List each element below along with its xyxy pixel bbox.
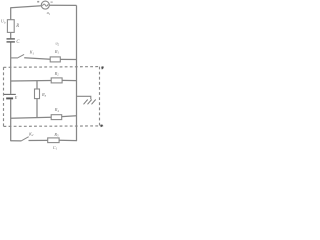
svg-text:R3: R3 bbox=[41, 92, 47, 98]
svg-text:R2: R2 bbox=[54, 71, 60, 77]
battery E bbox=[4, 94, 16, 98]
wire top-left horizontal bbox=[11, 6, 42, 8]
svg-text:u2: u2 bbox=[56, 41, 60, 47]
svg-text:K2: K2 bbox=[28, 131, 34, 137]
svg-text:C: C bbox=[16, 40, 20, 45]
resistor R4 bbox=[51, 115, 62, 120]
wire R3 down bbox=[36, 99, 38, 118]
wire R5 to right bbox=[59, 139, 77, 141]
wire bbox=[10, 32, 12, 38]
wire3 right bbox=[62, 115, 77, 118]
svg-text:R: R bbox=[15, 24, 19, 29]
capacitor C bbox=[7, 39, 15, 42]
wire top-right horizontal bbox=[49, 4, 76, 6]
wire2 right bbox=[62, 79, 76, 81]
shield box dashed right bbox=[99, 67, 101, 126]
resistor R5 bbox=[48, 138, 59, 143]
wire stub to chassis ground bbox=[77, 96, 91, 99]
shield box dashed top bbox=[4, 66, 100, 69]
svg-text:u1: u1 bbox=[47, 10, 51, 16]
wire left vertical lower bbox=[10, 99, 12, 141]
wire K2 to R5 bbox=[29, 139, 48, 141]
svg-text:C1: C1 bbox=[53, 145, 58, 150]
svg-text:E: E bbox=[14, 95, 18, 100]
ac source u1 bbox=[41, 1, 49, 9]
minus mark bbox=[51, 1, 53, 4]
svg-text:R5: R5 bbox=[53, 132, 59, 138]
wire2 left bbox=[11, 80, 52, 83]
wire junction down to R3 bbox=[36, 81, 38, 89]
switch K2 bbox=[21, 137, 29, 141]
svg-text:R1: R1 bbox=[54, 49, 60, 55]
plus mark bbox=[37, 1, 39, 3]
wire left vertical middle bbox=[10, 43, 12, 94]
mark bottom-right bbox=[100, 125, 103, 128]
resistor R2 bbox=[51, 78, 62, 83]
resistor R1 bbox=[50, 57, 60, 62]
svg-text:Ub: Ub bbox=[1, 19, 6, 25]
svg-text:K1: K1 bbox=[29, 50, 35, 56]
chassis ground bbox=[84, 100, 96, 105]
resistor R3 bbox=[35, 89, 40, 99]
wire3 left bbox=[11, 116, 52, 119]
svg-text:R4: R4 bbox=[54, 107, 60, 113]
wire K1 to R1 bbox=[24, 58, 50, 60]
wire R1 to right bbox=[60, 58, 76, 60]
mark top-right bbox=[101, 66, 104, 69]
shield box dashed left bbox=[3, 67, 5, 126]
wire left vertical upper bbox=[10, 7, 12, 19]
wire bottom left bbox=[11, 140, 21, 142]
wire right vertical bbox=[76, 5, 78, 141]
resistor R bbox=[7, 20, 14, 33]
shield box dashed bottom bbox=[4, 125, 106, 128]
switch K1 bbox=[11, 54, 24, 58]
